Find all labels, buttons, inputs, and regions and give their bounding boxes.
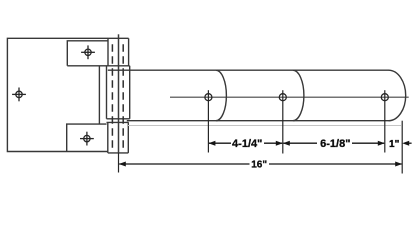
svg-text:4-1/4": 4-1/4" bbox=[232, 138, 262, 150]
strap bottom edge bbox=[127, 120, 390, 122]
knuckle joint line C bbox=[107, 121, 129, 123]
hidden pin hole line left bbox=[111, 44, 113, 151]
strap bead arc 1 bbox=[216, 70, 226, 121]
faint shadow line under strap bbox=[128, 125, 401, 127]
barrel middle knuckle bbox=[107, 66, 130, 119]
hidden pin hole line right bbox=[122, 44, 124, 151]
strap hole S1 bbox=[205, 94, 212, 101]
strap hole S2 bbox=[279, 94, 286, 101]
strap top edge bbox=[108, 69, 389, 71]
strap centerline bbox=[170, 96, 409, 98]
extension line strap tip bbox=[401, 121, 403, 174]
arrow tail 1 inch outer bbox=[409, 142, 412, 144]
pin centerline bbox=[118, 34, 120, 153]
svg-text:16": 16" bbox=[251, 160, 267, 171]
bottom tab screw hole H3 bbox=[80, 132, 94, 146]
svg-text:1": 1" bbox=[389, 139, 400, 150]
arrowhead right 4-1/4 bbox=[276, 141, 283, 146]
strap rounded end bbox=[389, 70, 406, 121]
strap bead arc 2 bbox=[293, 70, 304, 121]
dimension 6-1/8" line bbox=[283, 142, 384, 144]
strap hole S3 bbox=[381, 94, 388, 101]
knuckle joint line A bbox=[67, 65, 129, 67]
barrel lower knuckle bbox=[108, 122, 129, 152]
plate screw hole H1 bbox=[12, 88, 26, 102]
extension line hole S1 bbox=[207, 90, 209, 152]
arrowhead left 16 bbox=[119, 162, 126, 167]
extension line hole S3 bbox=[384, 90, 386, 152]
dimension 16" line bbox=[119, 163, 401, 165]
extension line hole S2 bbox=[282, 90, 284, 153]
dimension 4-1/4" line bbox=[209, 142, 282, 144]
bottom tab bbox=[67, 124, 107, 151]
top tab screw hole H2 bbox=[81, 45, 95, 59]
arrowhead left 4-1/4 bbox=[208, 141, 215, 146]
barrel upper knuckle bbox=[108, 38, 129, 66]
arrowhead left 6-1/8 bbox=[283, 141, 290, 146]
arrowhead right 16 bbox=[395, 162, 402, 167]
top tab bbox=[67, 41, 107, 66]
plate right edge between tabs bbox=[98, 66, 100, 124]
arrowhead right 6-1/8 bbox=[378, 141, 385, 146]
extension line pin center bbox=[118, 153, 120, 173]
arrowhead 1 inch outer bbox=[402, 141, 409, 146]
svg-text:6-1/8": 6-1/8" bbox=[320, 138, 350, 150]
leaf plate outline bbox=[7, 38, 108, 151]
